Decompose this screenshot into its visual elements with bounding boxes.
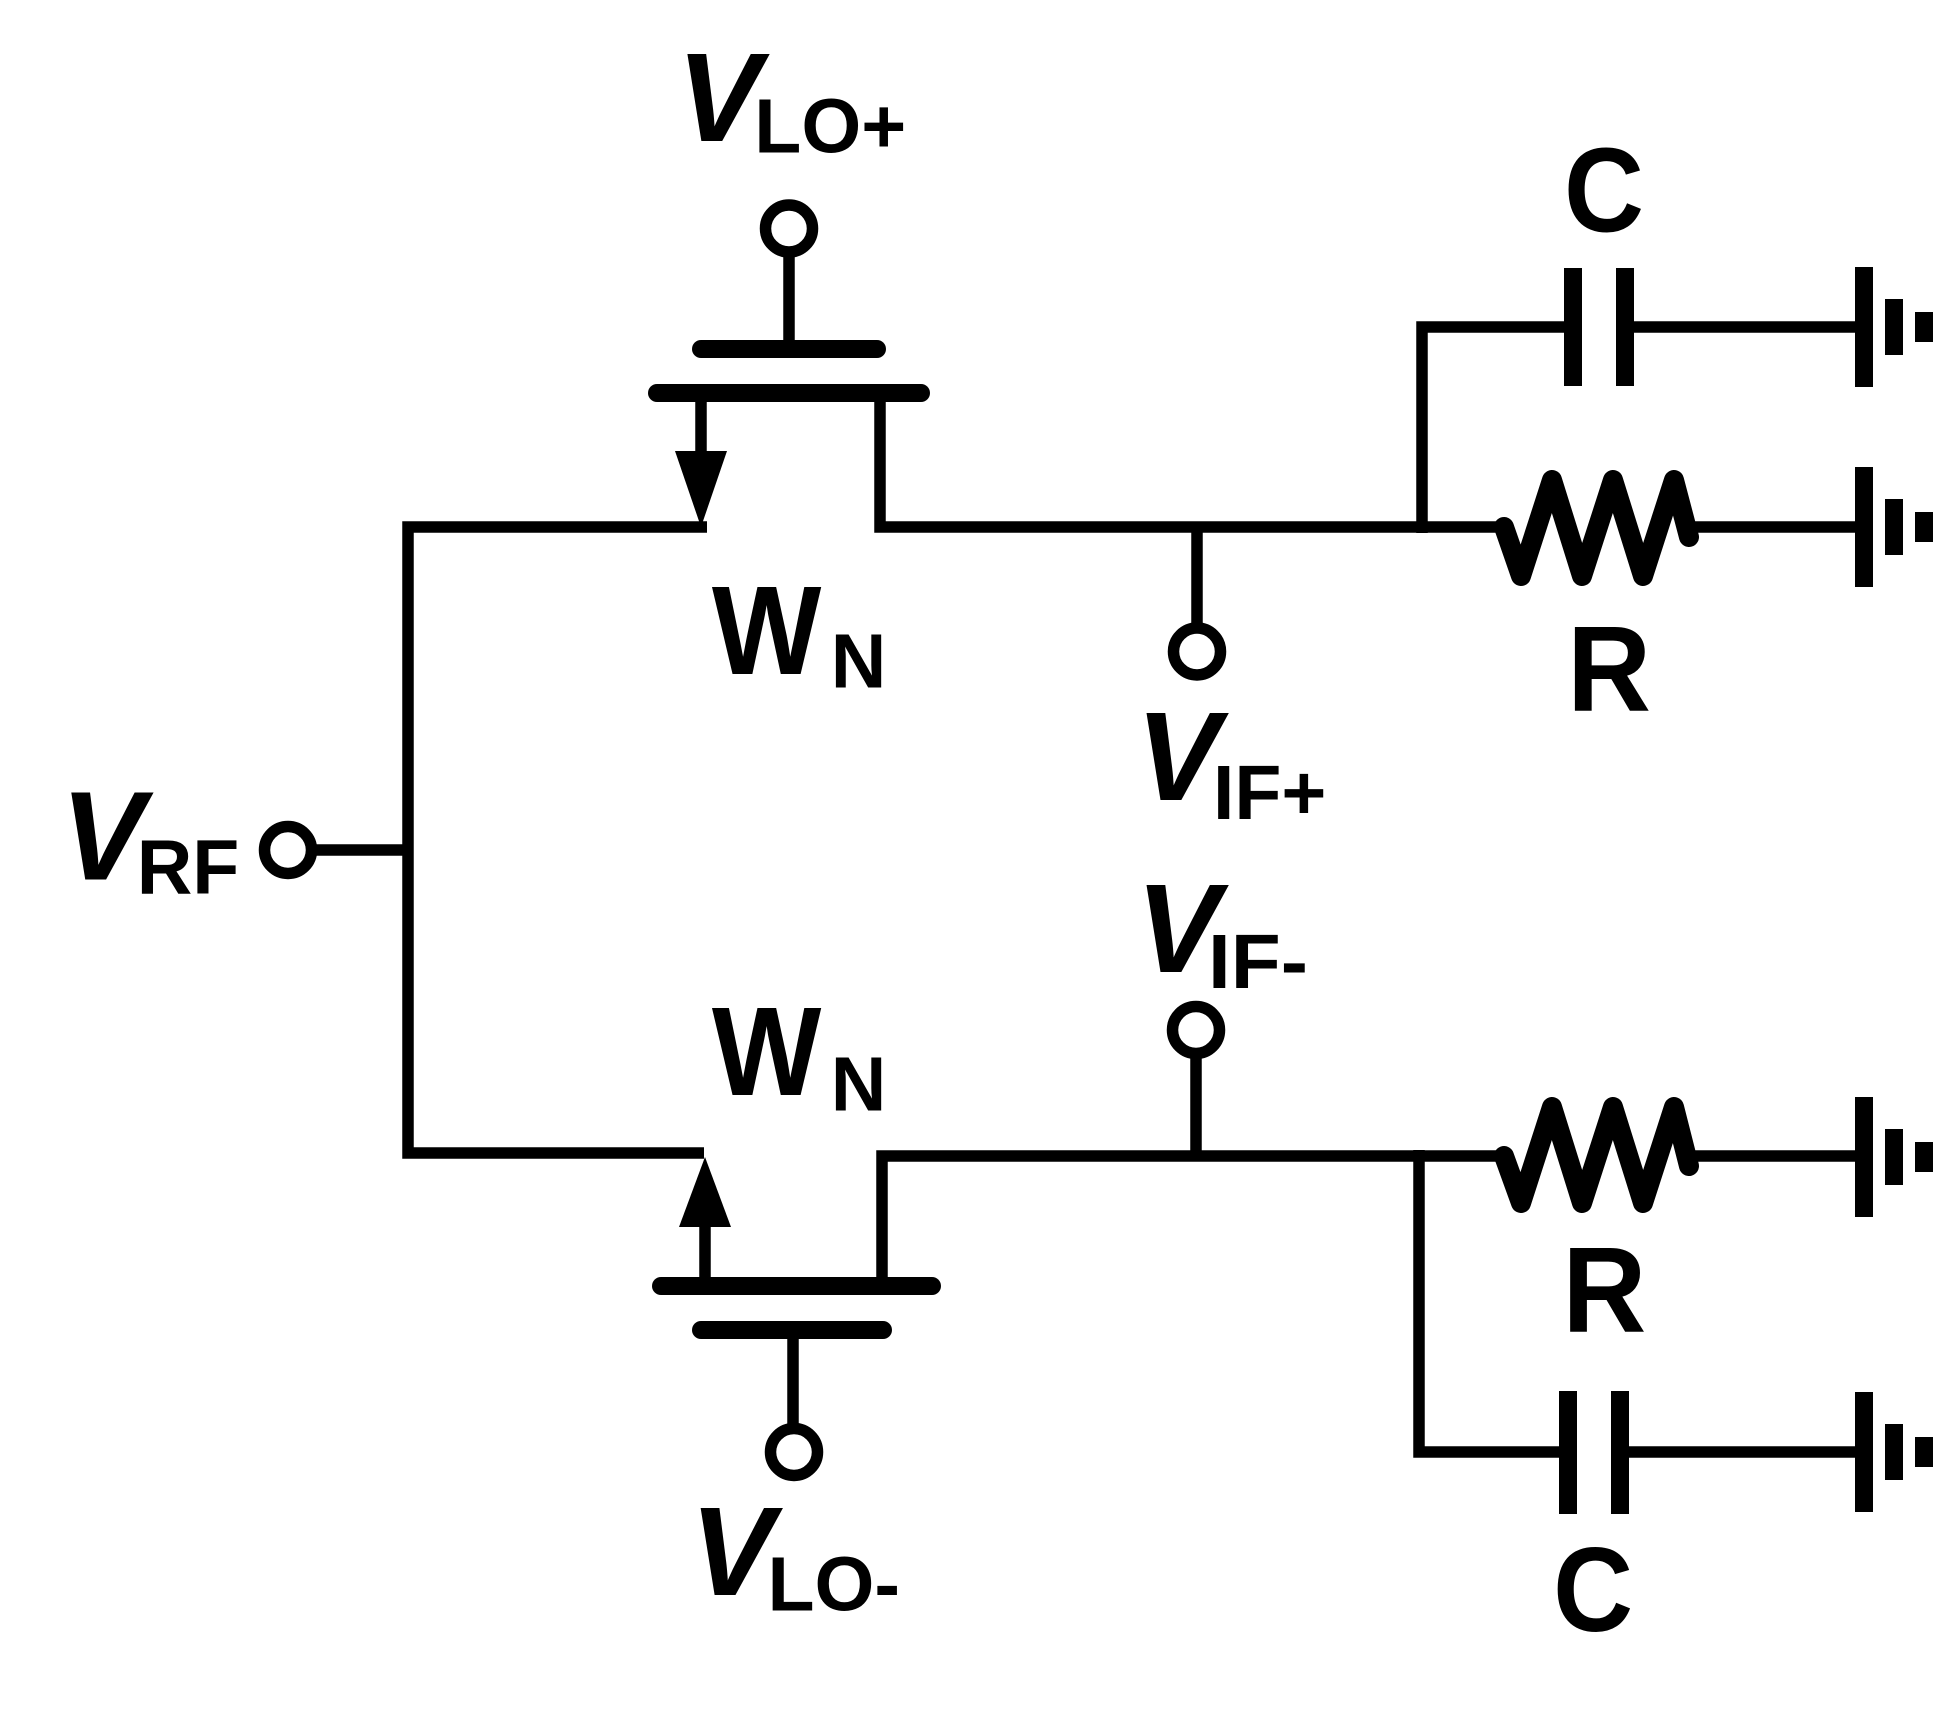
node VLO+ terminal (766, 205, 813, 252)
wire top rail right (drain to resistor) (880, 398, 1503, 527)
node VIF+ terminal (1174, 628, 1221, 675)
wire RF trunk with top/bottom rails left (408, 527, 707, 1153)
transistor M1 channel bar (657, 384, 921, 402)
svg-text:IF-: IF- (1208, 919, 1308, 1005)
svg-text:C: C (1553, 1523, 1633, 1657)
transistor M2 source arrow (up) (679, 1157, 731, 1227)
ground G1 (top capacitor) (1855, 267, 1933, 387)
transistor M2 channel bar (661, 1277, 932, 1295)
svg-text:N: N (831, 1041, 887, 1127)
svg-text:C: C (1564, 123, 1644, 257)
svg-text:LO-: LO- (768, 1542, 901, 1628)
ground G3 (bottom resistor) (1855, 1097, 1933, 1217)
transistor M1 gate bar (701, 340, 877, 358)
resistor R2 (1504, 1107, 1689, 1203)
transistor M2 gate stem (787, 1338, 799, 1430)
transistor M1 source lead (695, 400, 707, 455)
wire branch to capacitor C1 (1422, 327, 1564, 533)
node VIF- terminal (1173, 1007, 1220, 1054)
svg-text:LO+: LO+ (754, 84, 906, 170)
wire top rail after resistor to ground (1689, 521, 1864, 533)
wire VIF+ stub (1191, 527, 1203, 630)
node VLO- terminal (771, 1429, 818, 1476)
node VRF terminal (265, 827, 312, 874)
svg-text:N: N (831, 618, 887, 704)
svg-text:W: W (712, 560, 822, 701)
capacitor C2 plates (1559, 1391, 1629, 1514)
transistor M2 gate bar (701, 1321, 883, 1339)
wire C2 to ground (1629, 1446, 1864, 1458)
ground G4 (bottom capacitor) (1855, 1392, 1933, 1512)
wire VIF- stub (1190, 1051, 1202, 1156)
wire C1 to ground (1634, 321, 1864, 333)
wire bottom rail after resistor to ground (1689, 1150, 1864, 1162)
svg-text:RF: RF (137, 825, 240, 911)
svg-text:IF+: IF+ (1213, 750, 1326, 836)
wire VRF stub (316, 844, 408, 856)
transistor M2 source lead (699, 1224, 711, 1283)
wire bottom rail right (drain to resistor) (882, 1156, 1503, 1290)
transistor M1 gate stem (783, 250, 795, 341)
svg-text:R: R (1567, 601, 1651, 737)
resistor R1 (1504, 480, 1689, 576)
ground G2 (top resistor) (1855, 467, 1933, 587)
svg-text:W: W (712, 981, 822, 1122)
transistor M1 source arrow (down) (675, 451, 727, 527)
wire branch to capacitor C2 (1419, 1150, 1559, 1452)
svg-text:R: R (1562, 1222, 1646, 1358)
capacitor C1 plates (1564, 268, 1634, 386)
